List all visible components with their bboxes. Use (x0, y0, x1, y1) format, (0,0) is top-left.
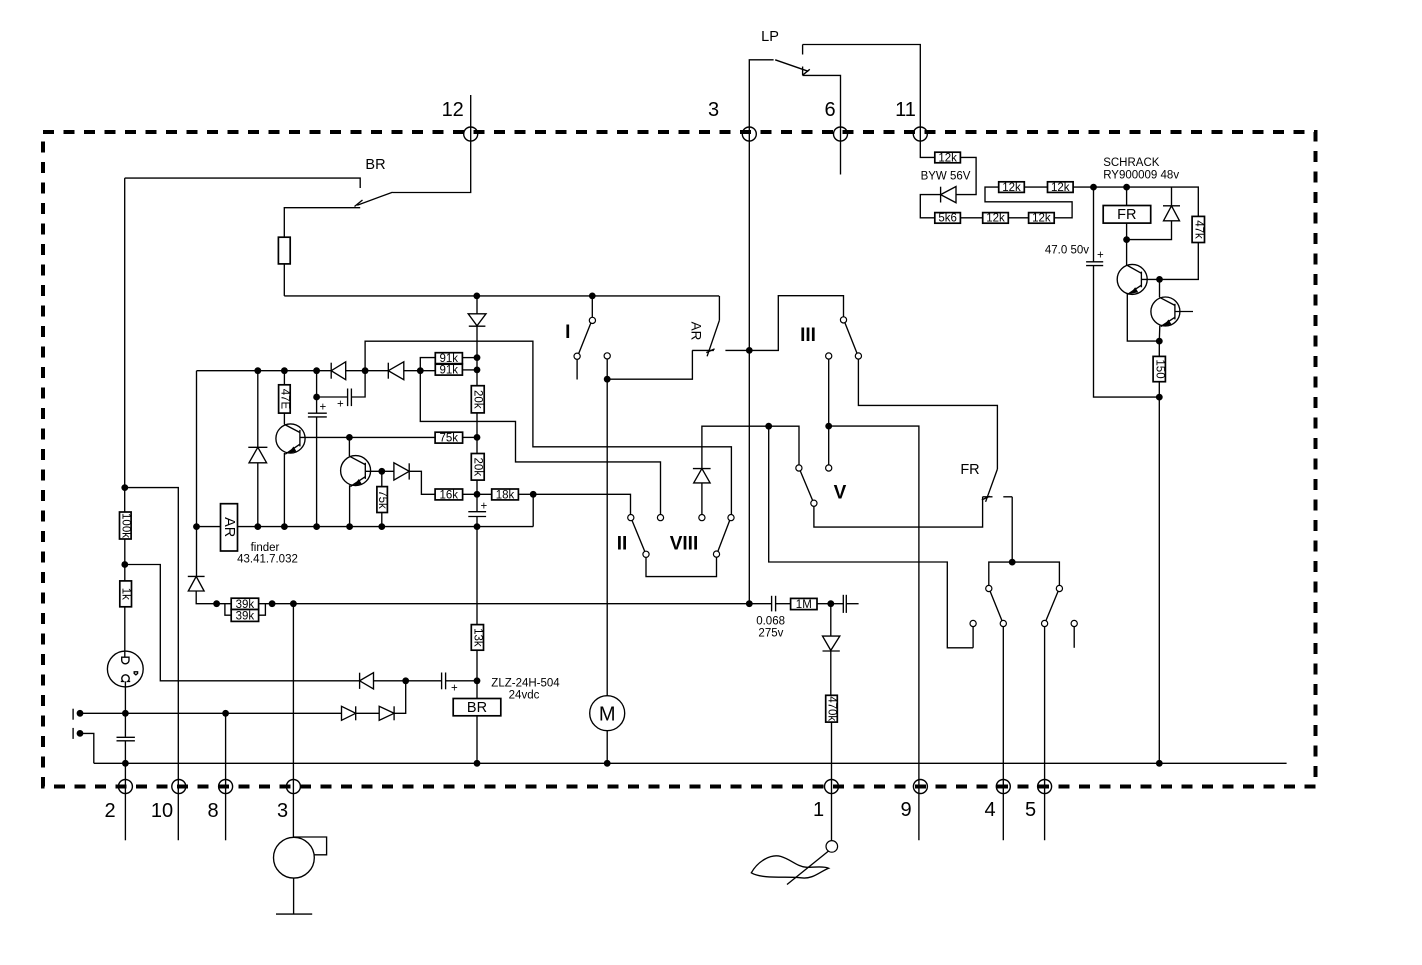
capacitor C4 electrolytic below 16k node (468, 501, 487, 517)
svg-text:12k: 12k (938, 152, 957, 164)
terminal 4 (984, 780, 1010, 822)
terminal 10 (151, 780, 186, 823)
svg-text:39k: 39k (236, 610, 255, 622)
wire BR coil column (477) down (476, 527, 478, 625)
contact pin lower left (73, 728, 83, 739)
svg-text:VIII: VIII (670, 534, 699, 555)
diode D1 (points down) (468, 314, 486, 326)
svg-text:1M: 1M (796, 599, 812, 611)
capacitor C7 (right of 1M) (831, 595, 859, 613)
wire 1k to connector (124, 607, 126, 657)
svg-text:5k6: 5k6 (938, 213, 957, 225)
relay coil FR (1103, 187, 1151, 240)
resistor 75k vertical (376, 471, 388, 526)
capacitor C5 (681 line) (442, 673, 458, 695)
wire selector left contact to 426 node column (769, 426, 973, 648)
node 18k out (530, 491, 537, 498)
svg-text:12k: 12k (1002, 182, 1021, 194)
wire 18k node down to bottom bus corner (532, 494, 534, 526)
bottom bus (emitter rail) (197, 526, 534, 528)
terminal 2 (104, 780, 132, 823)
svg-text:1: 1 (813, 799, 824, 821)
node 16k 18k (474, 491, 481, 498)
svg-text:+: + (451, 683, 458, 695)
transistor Q3 (1117, 240, 1159, 342)
svg-text:20k: 20k (472, 458, 484, 477)
wire III mid contact column (826, 353, 832, 465)
wire D6 to 39k node (196, 591, 231, 604)
switch AR (relay contact) (688, 296, 749, 356)
resistor 91k (b) (435, 364, 462, 376)
wire 12k d to 12k e (1024, 186, 1047, 188)
zener column wire (257, 371, 259, 448)
diode D2 (points left) (331, 362, 346, 380)
node mid bus C3 (313, 367, 320, 374)
border dashed enclosure (43, 132, 1316, 787)
wire D9 up to 681 node (394, 681, 406, 714)
resistor 39k (a) (231, 598, 258, 611)
terminal 12 (442, 99, 478, 141)
svg-text:75k: 75k (376, 490, 388, 509)
capacitor 47.0 50v (1045, 187, 1159, 397)
wire pin to bottom rail (80, 733, 94, 763)
node Q2 base / 75k vertical (378, 468, 385, 475)
resistor 12k (d) (999, 182, 1025, 194)
node supply / 47.0 cap (1090, 184, 1097, 191)
resistor 47E (278, 385, 290, 413)
node Q3 base / 47k (1156, 276, 1163, 283)
node 39k line / terminal 3 column (290, 600, 297, 607)
diode BYW 56V (points left) (921, 171, 971, 203)
wire BYW to 5k6 (920, 195, 940, 218)
diode D3 (points left) (388, 362, 404, 380)
contact pin upper left (73, 709, 83, 720)
node selector common (1009, 559, 1016, 566)
resistor 12k (c) (1029, 213, 1055, 225)
motor M (590, 696, 625, 731)
wire fuse to top bus (283, 264, 285, 296)
wire Q1 base to 75k line (300, 436, 435, 438)
node rail Q1 emitter (281, 523, 288, 530)
wire BR switch output down to diode D1 column (476, 296, 478, 314)
node 39k line / LP column (746, 600, 753, 607)
node rail C3 (313, 523, 320, 530)
wire V lever to FR fixed contact (814, 497, 983, 527)
node FR coil bottom (1123, 236, 1130, 243)
svg-text:RY900009 48v: RY900009 48v (1103, 170, 1179, 182)
svg-text:24vdc: 24vdc (509, 690, 540, 702)
resistor 1k (120, 581, 132, 607)
node rail terminal 2 (122, 760, 129, 767)
wire LP to terminal 11 (803, 45, 921, 135)
node rail column 477 (474, 523, 481, 530)
diode D10 (points up) (693, 469, 711, 483)
svg-text:75k: 75k (440, 433, 459, 445)
wire Q2 base lead (365, 470, 394, 472)
resistor 100k (119, 512, 131, 539)
svg-text:18k: 18k (496, 489, 515, 501)
svg-text:47k: 47k (1192, 220, 1204, 239)
node mid bus zener (254, 367, 261, 374)
svg-text:AR: AR (221, 517, 237, 537)
svg-text:275v: 275v (758, 627, 783, 639)
wire 12k a to BYW diode (956, 157, 976, 194)
wire D7 to node 405 (374, 680, 442, 682)
wire D5 to 16k (409, 471, 435, 494)
svg-text:LP: LP (761, 29, 779, 45)
label finder 43.41.7.032 (237, 542, 298, 566)
svg-text:3: 3 (277, 800, 288, 822)
node top bus / D1 (473, 293, 480, 300)
wire 470k to terminal 1 (831, 722, 833, 841)
svg-text:FR: FR (960, 462, 979, 478)
wire 47k down to T2 collector node (1160, 243, 1199, 280)
svg-text:BYW 56V: BYW 56V (921, 171, 971, 183)
resistor 16k (435, 489, 492, 501)
wire 426 node to terminal 9 column (829, 426, 919, 840)
node AR contact / LP column (746, 347, 753, 354)
wire III lever tip to FR lever (858, 359, 997, 469)
wire Q3 base to node (1141, 278, 1159, 280)
node 426 / III mid column (825, 423, 832, 430)
node 100k bottom (121, 561, 128, 568)
switch III (749, 296, 861, 359)
switch to terminal 4 (986, 585, 1007, 840)
node 91k b right (474, 367, 481, 374)
resistor 5k6 (935, 213, 961, 225)
node supply / FR coil (1123, 184, 1130, 191)
node 39k right (269, 600, 276, 607)
wire right column to bottom rail (1158, 397, 1160, 763)
node AR contact branch (604, 376, 611, 383)
wire pin line y=713 with diodes feed (80, 712, 342, 714)
svg-text:SCHRACK: SCHRACK (1103, 157, 1160, 169)
wire zigzag to upper 12k row (985, 187, 1072, 218)
diode D9 (points right) (379, 706, 394, 720)
wire BR pivot to fuse (284, 208, 360, 238)
svg-text:91k: 91k (440, 353, 459, 365)
wire terminal 8 column (225, 713, 227, 840)
wire 18k node to switch II contact (533, 494, 630, 514)
node y713 terminal 2 column (122, 710, 129, 717)
switch LP (749, 29, 810, 134)
diode D12 flyback (points up) (1127, 187, 1180, 240)
float switch (level sensor) (751, 841, 837, 885)
capacitor C6 horizontal small (317, 371, 366, 411)
svg-text:100k: 100k (119, 513, 131, 538)
wire 91k left step (420, 358, 435, 371)
label ZLZ-24H-504 24vdc (491, 678, 560, 702)
node top bus / switch I (589, 293, 596, 300)
label SCHRACK RY900009 48v (1103, 157, 1179, 182)
wire 91k right leads (462, 358, 477, 370)
svg-text:150: 150 (1153, 359, 1165, 378)
wire 12k b to 12k c (1008, 217, 1028, 219)
diode D4 (points up) (248, 447, 267, 463)
terminal 3 bottom (277, 780, 300, 823)
wire D10 up to 426 line over to V left contact (702, 426, 799, 468)
svg-text:12k: 12k (1032, 213, 1051, 225)
svg-text:ZLZ-24H-504: ZLZ-24H-504 (491, 678, 560, 690)
node VIII mid contact right with diode feed (699, 483, 705, 521)
node rail 75k vertical (378, 523, 385, 530)
wire left column from BR line down (124, 178, 126, 512)
svg-text:+: + (1097, 250, 1104, 262)
wire relay supply rail (1073, 187, 1198, 216)
svg-text:BR: BR (365, 157, 385, 173)
resistor 75k horizontal (435, 432, 477, 444)
contact open right of selector (1071, 620, 1077, 647)
node C6 left (313, 394, 320, 401)
diode D5 (points right) (394, 463, 409, 480)
node 75k / 20k (474, 434, 481, 441)
wire node365 up over to 447 line (365, 341, 731, 515)
terminal 5 (1025, 780, 1052, 822)
node VIII mid contact left (657, 515, 663, 521)
resistor 18k (492, 489, 534, 501)
wire between D8 D9 (356, 712, 380, 714)
terminal 11 (895, 99, 927, 141)
svg-text:4: 4 (984, 799, 995, 821)
wire M motor column (606, 379, 608, 696)
wire node to 680 line left leg (125, 565, 360, 681)
node Q1 base / Q2 collector (346, 434, 353, 441)
node 100k top (121, 484, 128, 491)
svg-text:V: V (834, 483, 847, 504)
diode D11 (points down) (823, 604, 840, 651)
resistor 470k (825, 651, 837, 722)
wire finder column (196) (196, 371, 198, 577)
wire terminal 12 stub and lead to BR switch (393, 95, 471, 193)
svg-text:11: 11 (895, 99, 916, 121)
resistor 12k (b) (983, 213, 1009, 225)
switch II (617, 515, 649, 558)
svg-text:III: III (800, 325, 816, 346)
node 150 bottom (1156, 394, 1163, 401)
wire 20k b to 16k node (476, 480, 478, 512)
wire connector to lower node (124, 681, 126, 736)
node rail finder column (193, 523, 200, 530)
wire node to terminal 10 column (125, 488, 179, 841)
connector plug J1 (107, 651, 143, 687)
switch VIII (670, 515, 734, 558)
resistor 150 vertical (1153, 341, 1165, 397)
svg-text:12k: 12k (986, 213, 1005, 225)
node BR coil / C5 (474, 677, 481, 684)
relay coil BR (453, 699, 501, 717)
wire M to bottom rail (606, 731, 608, 764)
resistor 91k (a) (435, 353, 462, 365)
fuse F1 (278, 237, 290, 264)
terminal 8 (207, 780, 232, 823)
svg-text:AR: AR (688, 322, 703, 341)
svg-text:5: 5 (1025, 799, 1036, 821)
svg-text:M: M (599, 704, 616, 726)
wire II tip to VIII tip (U link) (646, 557, 717, 576)
pump P1 (274, 837, 327, 914)
svg-text:47E: 47E (278, 389, 290, 410)
resistor 13k (471, 625, 483, 651)
resistor 20k (b) vertical (471, 454, 484, 481)
terminal 9 (900, 780, 927, 822)
switch V (796, 465, 847, 506)
node 681 joint (402, 677, 409, 684)
bottom rail (94, 762, 1287, 764)
wire 47E column top (283, 371, 285, 385)
wire terminal 3 bottom column (292, 604, 294, 837)
svg-text:43.41.7.032: 43.41.7.032 (237, 554, 298, 566)
switch I (565, 296, 595, 380)
capacitor C3 column 316 (308, 371, 327, 527)
wire 5k6 to 12k b (960, 217, 982, 219)
node mid bus 91k left (417, 367, 424, 374)
diode D7 (y=681 line, points left) (360, 673, 374, 689)
node rail BR coil (474, 760, 481, 767)
svg-text:12k: 12k (1051, 182, 1070, 194)
resistor 47k vertical (1192, 216, 1204, 242)
wire Q4 base stub (1175, 311, 1193, 313)
wire 1M line from LP column (748, 134, 750, 604)
svg-text:0.068: 0.068 (756, 615, 785, 627)
wire 100k to 1k (124, 539, 126, 581)
svg-text:10: 10 (151, 800, 173, 822)
node rail zener (254, 523, 261, 530)
resistor 39k (b) (225, 604, 266, 623)
node mid bus riser (362, 367, 369, 374)
wire BR coil to bottom rail (476, 716, 478, 764)
resistor 20k (a) vertical (471, 386, 484, 413)
wire terminal 11 to 12k (920, 134, 935, 157)
svg-text:+: + (481, 501, 488, 513)
switch to terminal 5 (1042, 585, 1063, 840)
svg-text:13k: 13k (471, 628, 483, 647)
wire D4 to bottom bus (257, 463, 259, 527)
transistor Q1 (276, 413, 305, 526)
svg-text:470k: 470k (825, 696, 837, 721)
switch BR (125, 157, 393, 207)
top bus (fuse output) (284, 295, 719, 297)
wire node 420 down right to VIII left contact (420, 371, 660, 515)
wire cap to terminal 2 and stub (124, 741, 126, 841)
ground pump (276, 913, 312, 915)
node 1M out (827, 600, 834, 607)
terminal 6 (824, 99, 847, 141)
wire D3 to 91k left node (404, 370, 436, 372)
node 426 / selector branch (765, 423, 772, 430)
svg-text:6: 6 (824, 99, 835, 121)
svg-text:8: 8 (207, 800, 218, 822)
svg-text:BR: BR (467, 700, 487, 716)
svg-text:finder: finder (251, 542, 280, 554)
transistor Q2 (341, 437, 371, 526)
resistor 12k (e) (1048, 182, 1074, 194)
wire FR contact to selector common (1011, 497, 1013, 562)
terminal 1 (813, 780, 839, 822)
wire contact column to AR contact (604, 350, 692, 379)
wire D1 to 91k node (476, 326, 478, 386)
resistor 1M (776, 598, 831, 611)
svg-text:FR: FR (1117, 207, 1136, 223)
svg-text:3: 3 (708, 99, 719, 121)
capacitor C2 (terminal 2 column) (117, 737, 135, 741)
switch FR (relay contact) (960, 462, 1012, 502)
wire 13k to BR coil (476, 650, 478, 698)
wire C4 to bottom bus (476, 517, 478, 527)
node y713 terminal 8 column (222, 710, 229, 717)
relay coil AR (221, 504, 238, 551)
contact open left of selector (970, 620, 976, 647)
diode D6 (points up) (188, 576, 205, 591)
node mid bus 47E (281, 367, 288, 374)
svg-text:2: 2 (104, 800, 115, 822)
node rail Q2 emitter (346, 523, 353, 530)
svg-text:91k: 91k (440, 365, 459, 377)
svg-text:II: II (617, 534, 628, 555)
wire 20k to 75k node (476, 413, 478, 454)
svg-text:47.0 50v: 47.0 50v (1045, 245, 1089, 257)
svg-text:12: 12 (442, 99, 464, 121)
node rail motor (604, 760, 611, 767)
svg-text:20k: 20k (472, 390, 484, 409)
svg-text:I: I (565, 322, 570, 343)
node 91k a right (474, 354, 481, 361)
selector common bar (989, 562, 1060, 585)
svg-text:1k: 1k (120, 588, 132, 600)
svg-text:+: + (320, 402, 327, 414)
node emitters joint (1156, 338, 1163, 345)
svg-text:+: + (337, 399, 344, 411)
capacitor 0.068 275v (749, 596, 785, 640)
wire C5 to BR coil column (446, 680, 477, 682)
wire LP to terminal 6 (803, 75, 841, 174)
transistor Q4 (1151, 279, 1180, 341)
terminal 3 top (708, 99, 756, 141)
diode D8 (y=713 line, points right) (342, 706, 356, 720)
svg-text:9: 9 (900, 799, 911, 821)
wire 39k to terminal3 node and LP column (259, 603, 750, 605)
node rail right column (1156, 760, 1163, 767)
node 39k left (213, 600, 220, 607)
resistor 12k (a) (935, 152, 961, 164)
svg-text:16k: 16k (440, 489, 459, 501)
wire D2 to node 365 (346, 370, 389, 372)
mid bus (371) (197, 370, 332, 372)
